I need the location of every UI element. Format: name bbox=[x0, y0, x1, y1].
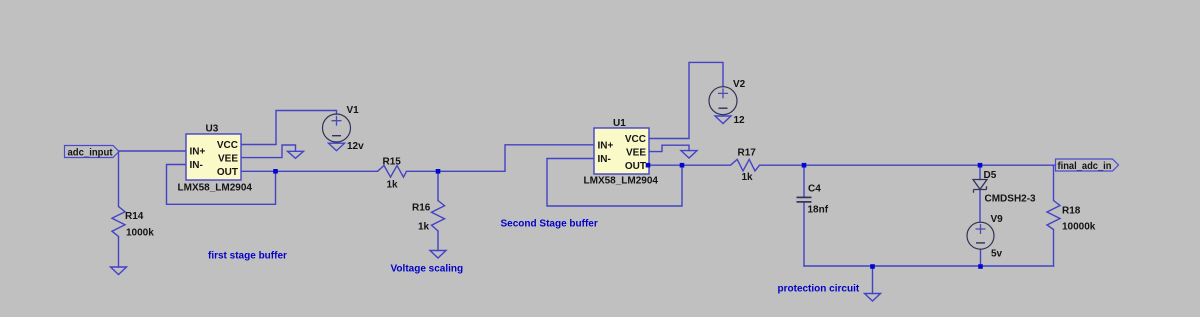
svg-text:1k: 1k bbox=[742, 172, 754, 183]
svg-text:OUT: OUT bbox=[625, 161, 646, 172]
svg-text:R17: R17 bbox=[738, 147, 757, 158]
svg-text:R14: R14 bbox=[125, 211, 144, 222]
svg-text:12v: 12v bbox=[347, 141, 364, 152]
svg-text:R15: R15 bbox=[383, 156, 402, 167]
svg-text:18nf: 18nf bbox=[808, 205, 829, 216]
svg-text:U1: U1 bbox=[613, 118, 626, 129]
svg-text:final_adc_in: final_adc_in bbox=[1058, 161, 1112, 172]
svg-text:V1: V1 bbox=[347, 105, 360, 116]
svg-text:5v: 5v bbox=[991, 248, 1003, 259]
svg-text:12: 12 bbox=[734, 115, 746, 126]
svg-text:Voltage scaling: Voltage scaling bbox=[391, 264, 464, 275]
svg-text:R18: R18 bbox=[1062, 206, 1081, 217]
svg-text:protection circuit: protection circuit bbox=[778, 284, 860, 295]
svg-text:V2: V2 bbox=[733, 79, 746, 90]
svg-text:V9: V9 bbox=[991, 214, 1004, 225]
svg-text:CMDSH2-3: CMDSH2-3 bbox=[985, 194, 1037, 205]
svg-text:D5: D5 bbox=[984, 170, 997, 181]
svg-text:1000k: 1000k bbox=[126, 228, 154, 239]
svg-text:1k: 1k bbox=[418, 221, 430, 232]
svg-text:R16: R16 bbox=[412, 203, 431, 214]
svg-text:VEE: VEE bbox=[626, 147, 646, 158]
svg-text:1k: 1k bbox=[387, 179, 399, 190]
svg-text:Second Stage buffer: Second Stage buffer bbox=[501, 219, 598, 230]
svg-text:IN-: IN- bbox=[190, 160, 203, 171]
svg-text:VCC: VCC bbox=[217, 140, 238, 151]
svg-text:IN+: IN+ bbox=[598, 141, 614, 152]
svg-text:U3: U3 bbox=[206, 124, 219, 135]
svg-text:LMX58_LM2904: LMX58_LM2904 bbox=[584, 176, 659, 187]
svg-text:IN+: IN+ bbox=[190, 147, 206, 158]
svg-text:IN-: IN- bbox=[598, 154, 611, 165]
svg-text:VCC: VCC bbox=[625, 134, 646, 145]
svg-text:OUT: OUT bbox=[217, 167, 238, 178]
svg-text:LMX58_LM2904: LMX58_LM2904 bbox=[178, 183, 253, 194]
svg-text:VEE: VEE bbox=[218, 153, 238, 164]
svg-text:C4: C4 bbox=[808, 184, 821, 195]
svg-text:10000k: 10000k bbox=[1062, 222, 1096, 233]
svg-text:first stage buffer: first stage buffer bbox=[208, 251, 287, 262]
svg-text:adc_input: adc_input bbox=[68, 147, 114, 158]
